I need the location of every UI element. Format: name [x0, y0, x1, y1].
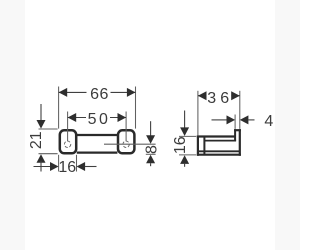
dim 16 side ext line bottom: [179, 154, 196, 156]
svg-text:66: 66: [90, 86, 109, 103]
dim 21 stem bottom: [40, 161, 42, 172]
dim 21 arrow up: [37, 154, 46, 163]
dim 21 extension line bottom: [39, 153, 58, 155]
hook square left: [60, 130, 76, 153]
dim 66 extension line right: [135, 87, 137, 129]
dim 16 side arrow up: [180, 155, 189, 164]
side: wall plate left edge: [197, 135, 199, 155]
dim 21 arrow down: [37, 120, 46, 129]
dim 66 line: [59, 91, 136, 93]
side: bottom outer edge: [197, 154, 241, 156]
dim 50 extension line right: [125, 112, 127, 142]
bar top edge: [77, 134, 118, 136]
dim 50 arrow right: [118, 113, 127, 122]
bar bottom edge: [77, 152, 118, 154]
side: riser top edge: [234, 129, 241, 131]
dim 4 arrow right-pointing: [227, 115, 236, 124]
dim 16 side stem top: [184, 111, 186, 128]
dim 66 extension line left: [58, 87, 60, 129]
dim 16 left-view shaft right: [85, 166, 97, 168]
right gray strip: [275, 0, 300, 250]
dim 36 label background: [206, 90, 231, 104]
svg-text:4: 4: [264, 113, 273, 130]
side: top inner edge: [204, 140, 236, 142]
side: bottom inner edge: [198, 150, 240, 152]
left gray strip: [0, 0, 25, 250]
dim 66 arrow right: [127, 88, 136, 97]
dim 8 arrow up: [146, 155, 155, 164]
side: top outer edge: [197, 135, 236, 137]
dim 50 arrow left: [68, 113, 77, 122]
side: hook right edge: [239, 129, 241, 156]
dim 21 extension line top: [39, 128, 58, 130]
dim 36 line: [198, 95, 240, 97]
bar center line extending right (top ext of dim 8): [104, 143, 156, 145]
dim 4 arrow left-pointing: [240, 115, 249, 124]
dim 66 arrow left: [59, 88, 68, 97]
dim 36 ext line right / dim 4 right: [239, 91, 241, 129]
dim 8 bottom ext line: [146, 153, 156, 155]
dim 50 label: [86, 112, 110, 125]
dim 36 arrow left: [198, 91, 207, 100]
dim 16 left-view ext line right: [76, 155, 78, 172]
dim 50 line: [68, 117, 127, 119]
side: wall plate right edge: [203, 137, 205, 155]
dim 66 label: [87, 86, 111, 99]
hook square right: [118, 130, 134, 153]
dim 21 stem top: [40, 104, 42, 121]
dim 16 left-view arrow left-pointing: [77, 162, 86, 171]
svg-text:21: 21: [28, 131, 45, 149]
dim 16 side ext line top: [179, 135, 196, 137]
dim 8 stem bottom: [150, 163, 152, 166]
svg-text:16: 16: [58, 159, 76, 176]
svg-text:16: 16: [172, 136, 189, 154]
dim 16 left-view shaft left: [34, 166, 51, 168]
svg-text:8: 8: [144, 145, 161, 154]
dim 8 arrow down: [146, 135, 155, 144]
dim 4 shaft right: [248, 119, 254, 121]
dim 16 side stem bottom: [184, 164, 186, 167]
screw circle right (dashed): [123, 141, 129, 147]
svg-text:36: 36: [207, 90, 233, 107]
dim 8 stem top: [150, 121, 152, 135]
dim 36 ext line left: [197, 91, 199, 135]
dim 16 left-view arrow right-pointing: [50, 162, 59, 171]
dim 16 side arrow down: [180, 127, 189, 136]
dim 16 left-view ext line left: [58, 155, 60, 172]
screw circle left (dashed): [64, 141, 70, 147]
dim 4 shaft left: [212, 119, 227, 121]
side: riser left edge: [234, 129, 236, 140]
dim 4 ext line left: [234, 115, 236, 129]
dim 36 arrow right: [231, 91, 240, 100]
svg-text:50: 50: [88, 111, 111, 128]
dim 50 extension line left: [67, 112, 69, 142]
